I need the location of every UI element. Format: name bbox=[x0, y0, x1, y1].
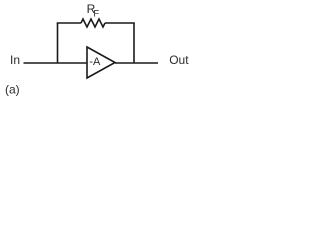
svg-text:-A: -A bbox=[89, 56, 101, 68]
node A: feedback tap junction on input wire bbox=[57, 23, 59, 63]
resistor RF: zigzag body bbox=[81, 19, 105, 27]
wire: output from amplifier apex to Out label bbox=[115, 62, 158, 64]
svg-text:(a): (a) bbox=[5, 83, 20, 97]
wire: right feedback vertical down to output bbox=[133, 23, 135, 63]
wire: top feedback left segment bbox=[57, 22, 81, 24]
wire: input from In label to amplifier input node bbox=[24, 62, 88, 64]
svg-text:F: F bbox=[93, 8, 99, 19]
op-amp U1: inverting amplifier triangle bbox=[87, 47, 115, 78]
svg-text:Out: Out bbox=[169, 53, 189, 67]
wire: top feedback right segment bbox=[105, 22, 135, 24]
svg-text:In: In bbox=[10, 53, 20, 67]
